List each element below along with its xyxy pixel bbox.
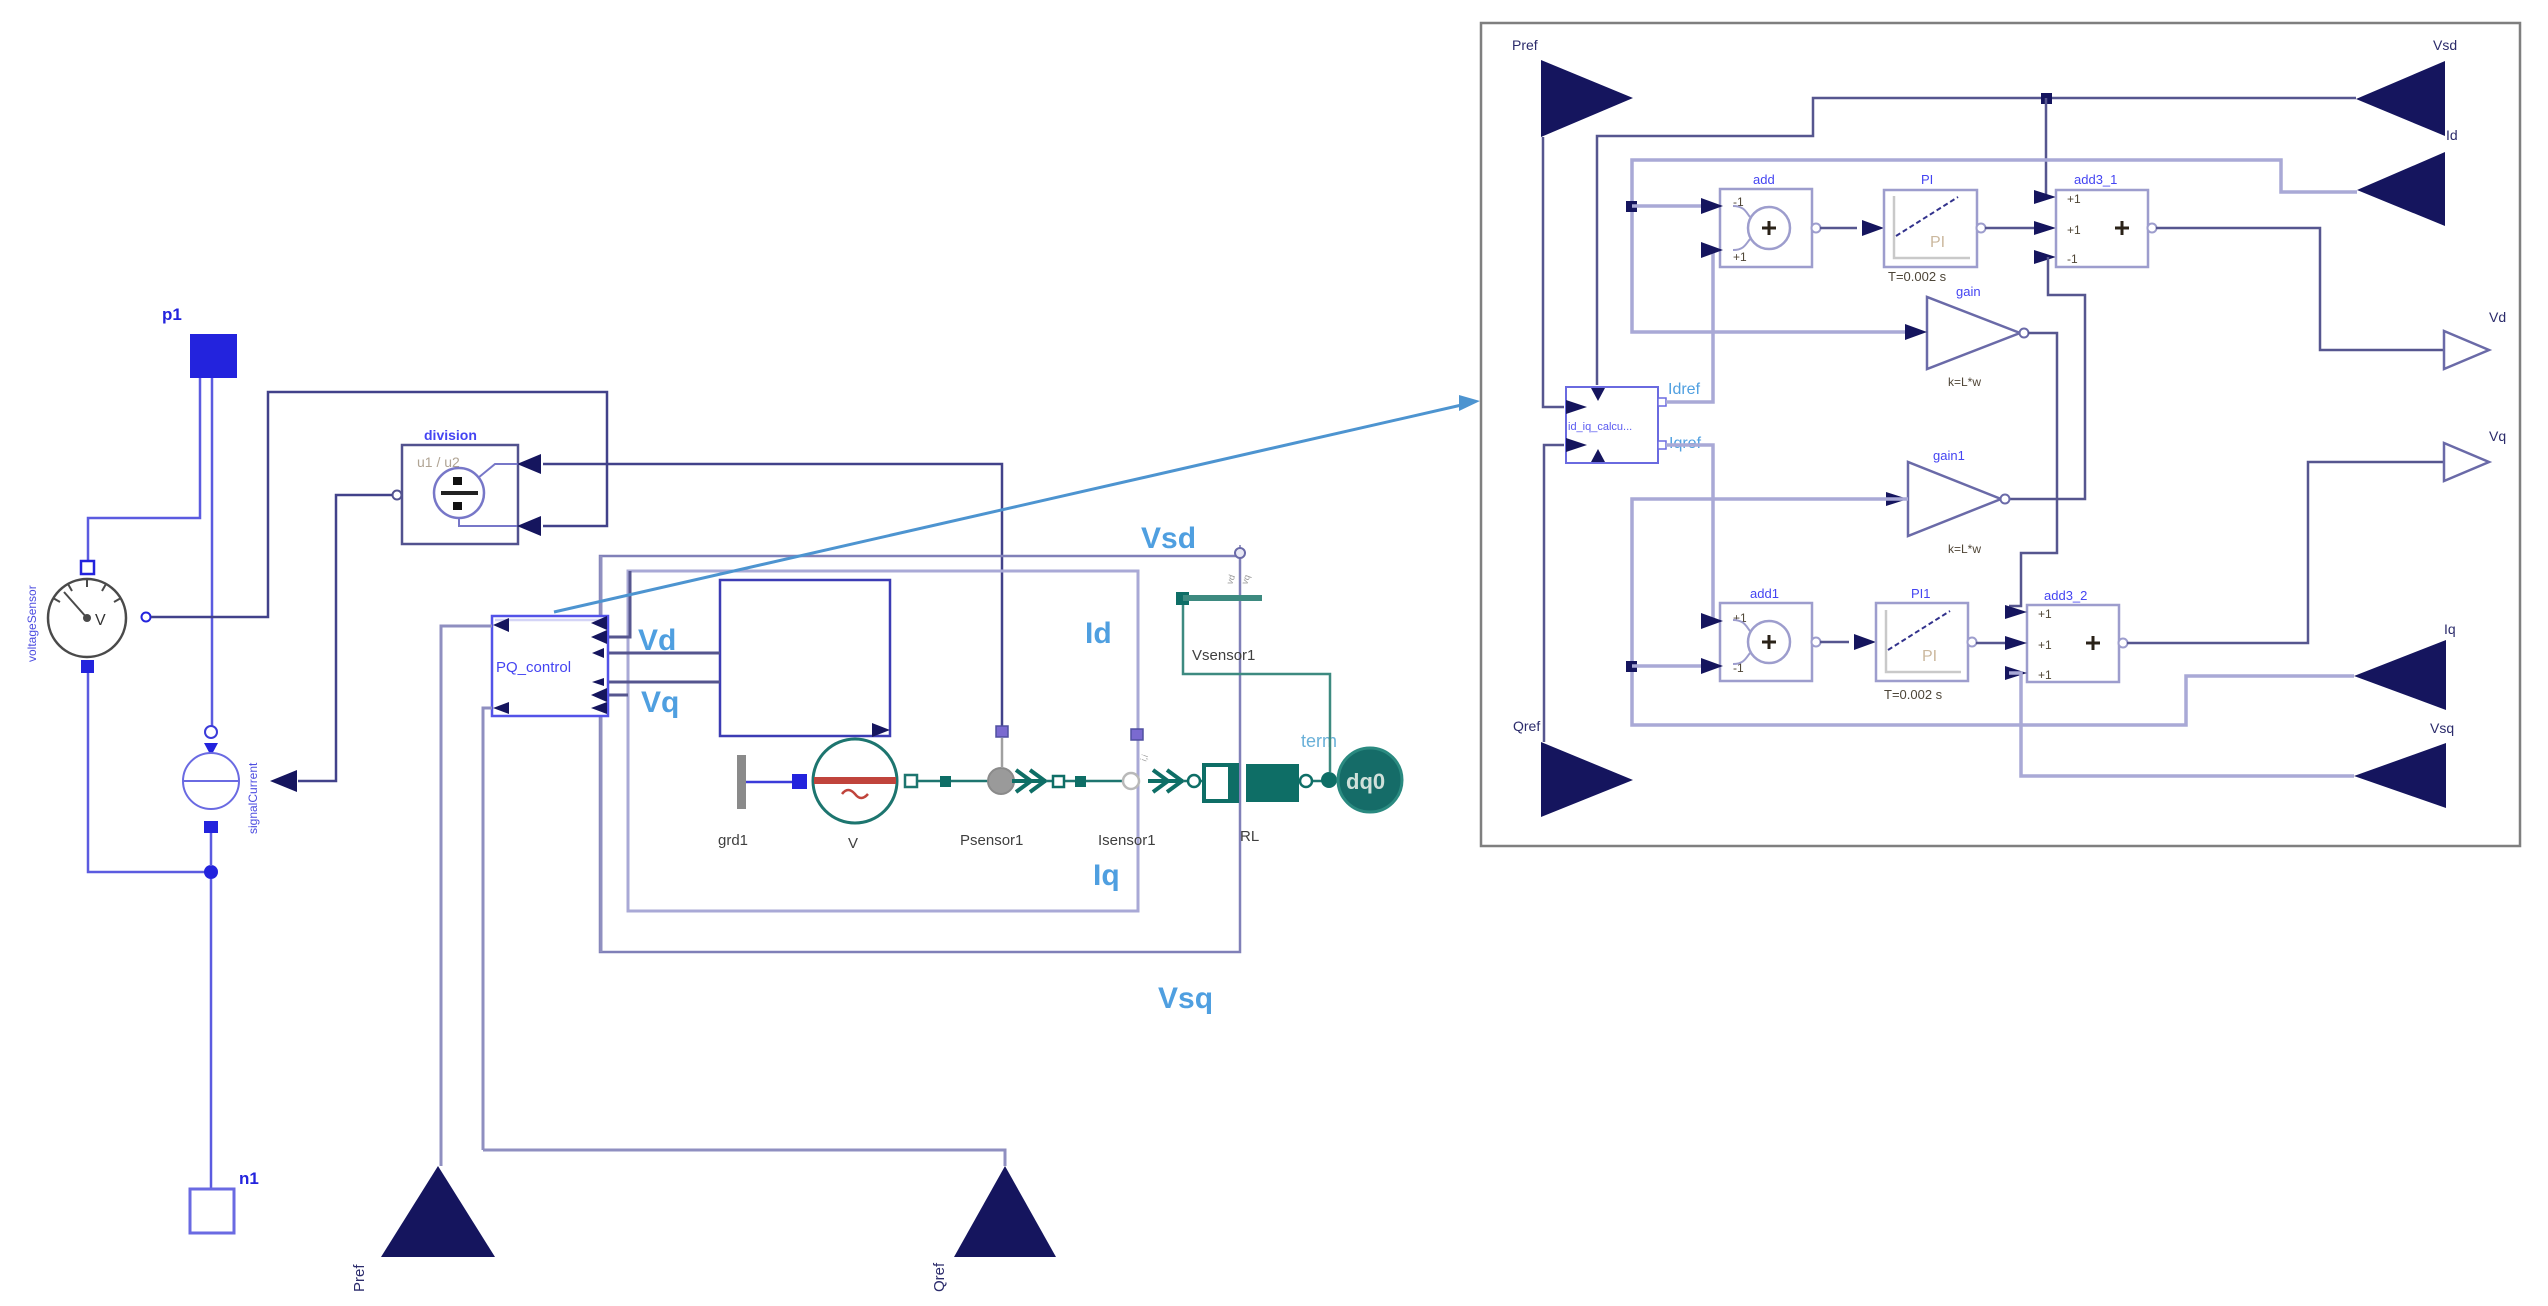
svg-text:T=0.002 s: T=0.002 s xyxy=(1884,687,1943,702)
svg-text:PI: PI xyxy=(1922,648,1937,665)
PQ_control block xyxy=(492,616,608,716)
wire node to n1 xyxy=(210,879,213,1189)
connector square open xyxy=(1053,776,1064,787)
svg-text:i,i: i,i xyxy=(1138,753,1150,763)
Psensor1 output pin xyxy=(996,726,1008,737)
PQ_control Id arrow xyxy=(591,630,607,644)
svg-text:Id: Id xyxy=(1085,617,1112,650)
svg-text:Qref: Qref xyxy=(931,1262,948,1292)
wire Pref into PQ_control xyxy=(441,626,492,1166)
wire Id to add xyxy=(1632,204,1701,208)
add3_2 out pin xyxy=(2119,639,2128,648)
add in1 arrow xyxy=(1701,198,1723,214)
converter input arrowhead xyxy=(872,723,890,737)
svg-text:Vq: Vq xyxy=(2489,428,2506,444)
svg-text:+1: +1 xyxy=(1733,611,1747,625)
add3_1 in1 arrow xyxy=(2034,190,2056,204)
wire Vsq into PQ_control xyxy=(600,716,603,952)
RL resistor fill part xyxy=(1228,765,1237,801)
wire division.y to signalCurrent.i xyxy=(298,495,392,781)
zoom arrow PQ_control to detail xyxy=(554,404,1466,612)
wire Id net xyxy=(1632,160,2357,332)
wire Vq to converter xyxy=(608,681,720,684)
V negative pin xyxy=(792,774,807,789)
wire add3_1 to Vd xyxy=(2156,228,2444,350)
PQ_control Vq out arrow xyxy=(592,678,604,686)
svg-text:RL: RL xyxy=(1240,828,1259,845)
add3_1 out pin xyxy=(2148,224,2157,233)
block add3_1 xyxy=(2056,190,2148,267)
block add xyxy=(1720,189,1812,267)
wire Vsq loop (outer rectangle) xyxy=(600,556,1240,952)
svg-text:-1: -1 xyxy=(2067,252,2078,266)
gain in arrow xyxy=(1905,324,1927,340)
svg-text:+1: +1 xyxy=(2038,607,2052,621)
svg-text:PI1: PI1 xyxy=(1911,586,1931,601)
PQ_control border highlight xyxy=(495,619,605,622)
wire Iqref to add1 xyxy=(1666,445,1713,621)
id_iq Qref arrow xyxy=(1566,438,1587,452)
svg-text:Psensor1: Psensor1 xyxy=(960,832,1023,849)
wire Vsd net xyxy=(1597,98,2356,385)
add3_1 in2 arrow xyxy=(2034,221,2056,235)
Psensor1 body xyxy=(988,768,1014,794)
division block xyxy=(402,445,519,544)
voltageSensor bottom connector xyxy=(81,660,94,673)
id_iq Pref arrow xyxy=(1566,400,1587,414)
svg-text:PI: PI xyxy=(1921,172,1933,187)
wire Vsd to add3_1 xyxy=(2034,98,2046,197)
wire add3_2 to Vq xyxy=(2127,462,2444,643)
svg-text:PQ_control: PQ_control xyxy=(496,659,571,676)
gain1 in arrow xyxy=(1886,492,1908,506)
junction term xyxy=(1321,772,1337,788)
svg-text:vd: vd xyxy=(1224,573,1237,585)
RL inductor xyxy=(1246,764,1299,802)
wire PI to add3_1 xyxy=(1985,227,2034,230)
wire Qref into PQ_control xyxy=(483,708,492,1150)
junction Vsd xyxy=(2041,93,2052,104)
Vsensor1 output pin at corner xyxy=(1239,545,1241,556)
svg-text:p1: p1 xyxy=(162,305,182,324)
svg-text:Isensor1: Isensor1 xyxy=(1098,832,1156,849)
PQ_control Pref arrow xyxy=(493,618,509,632)
wire Qref horizontal xyxy=(483,1150,1005,1166)
Vsensor1 body xyxy=(1176,592,1330,772)
detail Vsd triangle xyxy=(2356,61,2445,136)
svg-text:Vsq: Vsq xyxy=(1158,982,1213,1015)
svg-text:Vd: Vd xyxy=(638,624,676,657)
plug connector xyxy=(940,776,951,787)
wire Isensor1 to RL xyxy=(1183,780,1203,783)
add1 out pin xyxy=(1812,638,1821,647)
wire p1 to signalCurrent xyxy=(211,378,214,726)
Psensor1 arrow xyxy=(1012,770,1046,792)
voltageSensor body xyxy=(48,579,126,657)
wire signalCurrent to node xyxy=(210,833,213,866)
signalCurrent body xyxy=(183,753,239,809)
detail Iq triangle xyxy=(2354,640,2446,710)
detail box frame xyxy=(1481,23,2520,846)
detail Qref triangle xyxy=(1541,742,1633,817)
PI in arrow xyxy=(1862,220,1884,236)
id_iq Idref pin xyxy=(1658,398,1666,406)
pin p1 xyxy=(190,334,237,378)
svg-text:Vsd: Vsd xyxy=(1141,522,1196,555)
svg-text:term: term xyxy=(1301,731,1337,751)
svg-text:n1: n1 xyxy=(239,1169,259,1188)
svg-text:V: V xyxy=(95,612,106,629)
svg-text:Idref: Idref xyxy=(1668,381,1701,398)
wire Vsd drop to PQ_control xyxy=(600,556,603,618)
id_iq bottom arrow xyxy=(1591,449,1605,462)
svg-text:Id: Id xyxy=(2446,127,2458,143)
wire Psensor1.P to division.u1 xyxy=(543,464,1002,726)
block gain xyxy=(1927,297,2020,369)
pin n1 xyxy=(190,1189,234,1233)
add3_1 in3 arrow xyxy=(2034,250,2056,264)
id_iq top arrow xyxy=(1591,388,1605,401)
wire voltageSensor.v to division.u2 xyxy=(151,392,607,617)
svg-text:+1: +1 xyxy=(2067,223,2081,237)
wire V to Psensor1 xyxy=(917,780,988,783)
svg-text:+1: +1 xyxy=(1733,250,1747,264)
svg-text:dq0: dq0 xyxy=(1346,769,1385,794)
add3_2 in3 arrow xyxy=(2005,666,2027,680)
wire Iq into PQ_control xyxy=(608,694,628,697)
voltageSensor top connector xyxy=(81,561,94,574)
PI out pin xyxy=(1977,224,1986,233)
wire p1 to voltageSensor xyxy=(88,378,200,561)
signalCurrent input arrowhead xyxy=(204,743,218,756)
svg-text:Vsq: Vsq xyxy=(2430,720,2454,736)
svg-text:add1: add1 xyxy=(1750,586,1779,601)
block PI xyxy=(1884,190,1977,267)
svg-text:T=0.002 s: T=0.002 s xyxy=(1888,269,1947,284)
wire Vd to converter xyxy=(608,652,720,655)
input Qref triangle xyxy=(954,1166,1056,1257)
svg-text:add: add xyxy=(1753,172,1775,187)
add in2 arrow xyxy=(1701,242,1723,258)
division input u1 arrow xyxy=(517,454,541,474)
connector square filled xyxy=(1075,776,1086,787)
wire Idref to add xyxy=(1666,250,1713,402)
voltageSensor output pin xyxy=(142,613,151,622)
svg-text:division: division xyxy=(424,427,477,443)
svg-text:+1: +1 xyxy=(2067,192,2081,206)
svg-text:gain1: gain1 xyxy=(1933,448,1965,463)
wire Vsq net xyxy=(2009,673,2354,776)
PQ_control Vsq arrow xyxy=(591,702,607,714)
svg-text:signalCurrent: signalCurrent xyxy=(246,762,260,834)
svg-text:V: V xyxy=(848,835,858,852)
gain out pin xyxy=(2020,329,2029,338)
output Vd triangle xyxy=(2444,331,2489,369)
wire Iq to add1 xyxy=(1632,664,1701,668)
wire add to PI xyxy=(1820,227,1857,230)
wire RL to dq0 xyxy=(1299,780,1340,783)
junction Iq xyxy=(1626,661,1637,672)
block id_iq_calcu xyxy=(1566,387,1658,463)
PI1 out pin xyxy=(1968,638,1977,647)
svg-text:Pref: Pref xyxy=(1512,37,1538,53)
V output pin xyxy=(905,775,917,787)
block add1 xyxy=(1720,603,1812,681)
svg-text:grd1: grd1 xyxy=(718,832,748,849)
svg-text:add3_1: add3_1 xyxy=(2074,172,2117,187)
svg-text:Vd: Vd xyxy=(2489,309,2506,325)
svg-text:Qref: Qref xyxy=(1513,718,1540,734)
id_iq Iqref pin xyxy=(1658,441,1666,449)
wire voltageSensor to node xyxy=(88,673,205,872)
add out pin xyxy=(1812,224,1821,233)
add3_2 in1 arrow xyxy=(2005,605,2027,619)
wire Id into PQ_control xyxy=(608,571,630,637)
wire grd1 to V xyxy=(746,781,792,784)
block gain1 xyxy=(1908,462,2001,536)
detail Id triangle xyxy=(2357,152,2445,226)
wire gain to add3_2 xyxy=(2009,333,2057,606)
signalCurrent bottom connector xyxy=(204,821,218,833)
svg-text:add3_2: add3_2 xyxy=(2044,588,2087,603)
svg-text:voltageSensor: voltageSensor xyxy=(25,585,39,662)
detail Pref triangle xyxy=(1541,60,1633,137)
division input u2 arrow xyxy=(517,516,541,536)
wire Psensor1 to Isensor1 xyxy=(1046,780,1122,783)
input Pref triangle xyxy=(381,1166,495,1257)
wire Iq net xyxy=(1632,499,2354,725)
division output pin xyxy=(393,491,402,500)
detail Vsq triangle xyxy=(2354,743,2446,808)
PI1 in arrow xyxy=(1854,634,1876,650)
svg-text:+1: +1 xyxy=(2038,638,2052,652)
svg-text:PI: PI xyxy=(1930,234,1945,251)
connector ring xyxy=(1300,775,1312,787)
wire PI1 to add3_2 xyxy=(1976,642,2005,645)
junction Id xyxy=(1626,201,1637,212)
signalCurrent top connector xyxy=(205,726,217,738)
Isensor1 arrow xyxy=(1148,770,1183,792)
add1 in1 arrow xyxy=(1701,613,1723,629)
block add3_2 xyxy=(2027,605,2119,682)
PQ_control Qref arrow xyxy=(493,702,509,714)
Isensor1 input ring xyxy=(1123,773,1139,789)
PQ_control Iq arrow xyxy=(591,688,607,702)
wire add1 to PI1 xyxy=(1820,641,1849,644)
svg-text:Vsensor1: Vsensor1 xyxy=(1192,647,1255,664)
arrowhead into signalCurrent xyxy=(270,770,297,792)
svg-text:id_iq_calcu...: id_iq_calcu... xyxy=(1568,421,1632,433)
svg-text:Pref: Pref xyxy=(351,1264,368,1292)
ground grd1 xyxy=(737,755,746,809)
converter block xyxy=(720,580,890,736)
PQ_control Vd out arrow xyxy=(592,648,604,658)
svg-text:Vsd: Vsd xyxy=(2433,37,2457,53)
RL resistor xyxy=(1204,765,1237,801)
AC source V xyxy=(813,739,897,823)
wire Pref to id_iq xyxy=(1543,137,1564,407)
add1 in2 arrow xyxy=(1701,658,1723,674)
node junction xyxy=(204,865,218,879)
svg-text:gain: gain xyxy=(1956,284,1981,299)
Psensor1 output stem xyxy=(1001,738,1004,768)
connector ring xyxy=(1188,775,1200,787)
Isensor1 output pin xyxy=(1131,729,1143,740)
svg-text:Iq: Iq xyxy=(2444,621,2456,637)
svg-text:k=L*w: k=L*w xyxy=(1948,542,1981,556)
wire Id loop (inner rectangle) xyxy=(628,571,1138,911)
svg-text:Vq: Vq xyxy=(641,686,679,719)
add3_2 in2 arrow xyxy=(2005,636,2027,650)
terminal dq0 xyxy=(1338,748,1402,812)
block PI1 xyxy=(1876,603,1968,681)
svg-text:k=L*w: k=L*w xyxy=(1948,375,1981,389)
wire Qref to id_iq xyxy=(1544,445,1564,742)
svg-text:vq: vq xyxy=(1239,573,1252,585)
PQ_control Vsd arrow xyxy=(591,616,607,630)
gain1 out pin xyxy=(2001,495,2010,504)
wire gain1 to add3_1 xyxy=(2009,257,2085,499)
output Vq triangle xyxy=(2444,443,2489,481)
svg-text:Iq: Iq xyxy=(1093,859,1120,892)
svg-text:+1: +1 xyxy=(2038,668,2052,682)
